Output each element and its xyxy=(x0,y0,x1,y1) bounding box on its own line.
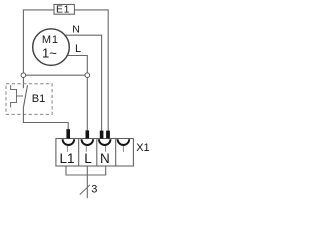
junction node left xyxy=(21,73,26,78)
svg-text:X1: X1 xyxy=(136,142,149,154)
heating element E1 box xyxy=(54,4,74,14)
terminal pin N (motor) xyxy=(100,131,104,139)
svg-text:L1: L1 xyxy=(60,151,75,166)
thermostat B1 dashed box xyxy=(6,84,52,115)
wire: E1 left lead down to B1 contact xyxy=(23,10,54,88)
svg-text:M1: M1 xyxy=(42,34,59,46)
wire below L1 xyxy=(65,166,67,175)
terminal clamp arc L1 xyxy=(63,139,75,145)
clamp stub L xyxy=(85,146,87,152)
wire: B1 switch to terminal L1 pin xyxy=(23,107,68,130)
svg-text:N: N xyxy=(72,24,80,36)
motor M1 circle xyxy=(33,29,70,66)
svg-text:L: L xyxy=(75,43,81,55)
clamp stub N xyxy=(105,146,107,152)
cable down lead xyxy=(86,175,88,198)
svg-text:B1: B1 xyxy=(32,93,45,105)
terminal separator 3 xyxy=(115,139,117,167)
wire: junction crossbar between nodes xyxy=(23,74,87,76)
B1 thermal actuator symbol xyxy=(11,85,23,108)
terminal clamp arc L xyxy=(82,139,94,145)
terminal block X1 outline xyxy=(56,139,133,167)
svg-text:E1: E1 xyxy=(56,4,70,16)
wire: motor L terminal down to terminal L pin xyxy=(67,56,88,131)
wire below N xyxy=(105,166,107,175)
junction node right xyxy=(85,73,90,78)
svg-text:L: L xyxy=(84,151,92,166)
terminal pin N (heater) xyxy=(106,131,110,139)
cable slash (3 conductors) xyxy=(80,185,90,195)
clamp stub L1 xyxy=(66,146,68,152)
terminal separator 2 xyxy=(96,139,98,167)
terminal clamp arc N xyxy=(99,139,111,145)
wire below L xyxy=(86,166,88,175)
B1 switch blade xyxy=(24,85,28,107)
clamp stub spare xyxy=(122,146,124,152)
svg-text:3: 3 xyxy=(91,184,97,196)
terminal clamp arc spare xyxy=(118,139,130,145)
wire: motor N terminal to terminal block xyxy=(65,35,102,130)
svg-text:1~: 1~ xyxy=(42,46,57,61)
terminal pin L1 xyxy=(66,129,70,138)
terminal pin L xyxy=(86,130,90,138)
terminal separator 1 xyxy=(78,139,80,167)
svg-text:N: N xyxy=(100,151,110,166)
wire: E1 right lead down to terminal N pin xyxy=(74,10,108,131)
cable bus bar xyxy=(66,174,107,176)
